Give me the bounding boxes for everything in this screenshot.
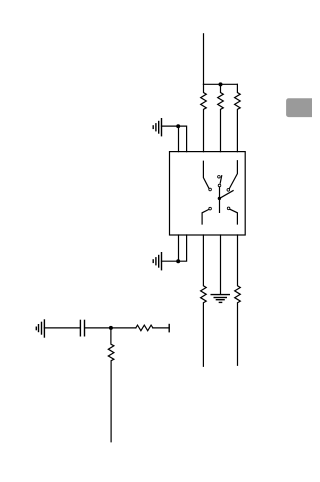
selection tab gray: [286, 98, 316, 117]
switch U1 body: [170, 152, 246, 235]
resistor R1: [201, 84, 207, 151]
terminal pin end: [168, 325, 170, 332]
wire R6 to terminal: [153, 327, 169, 329]
switch U1 bottom-right lead: [230, 209, 238, 224]
switch U1 pole line: [219, 187, 221, 213]
junction upper-left: [176, 124, 180, 128]
wire top horizontal bus: [204, 83, 238, 85]
switch U1 top lever (open): [220, 176, 222, 184]
capacitor C1: [80, 320, 84, 335]
wire pin stub upper-left: [178, 126, 180, 152]
switch U1 bottom-left lead: [202, 209, 209, 224]
switch U1 junction: [218, 197, 221, 200]
ground GND3 earth below box: [211, 295, 229, 303]
switch U1 top contact: [218, 176, 221, 179]
junction top bus: [219, 82, 223, 86]
resistor R4: [201, 235, 207, 366]
ground GND2 lower-left of box: [153, 253, 161, 270]
resistor R7 vertical: [108, 328, 114, 442]
switch U1 pole contact: [218, 184, 221, 187]
resistor R3: [235, 84, 241, 151]
resistor R5: [235, 235, 241, 365]
switch U1 left throw contact: [209, 188, 212, 191]
wire GND1 to pins: [162, 126, 187, 152]
wire GND4 to C1: [44, 327, 79, 329]
wire C1 to node: [85, 327, 136, 329]
switch U1 bottom-left contact: [209, 207, 212, 210]
wire pin stub lower-left: [178, 235, 180, 261]
ground GND4 far-left: [36, 320, 44, 337]
wire top vertical feed: [203, 34, 205, 85]
switch U1 left throw lead: [203, 161, 209, 188]
wire earth pin: [220, 235, 222, 294]
switch U1 right throw lead: [229, 161, 237, 189]
switch U1 right throw contact: [227, 189, 230, 192]
switch U1 main lever: [220, 191, 234, 199]
wire GND2 to pins: [162, 235, 187, 261]
resistor R2: [218, 84, 224, 151]
junction node bottom-left: [109, 326, 113, 330]
switch U1 bottom-right contact: [227, 207, 230, 210]
resistor R6 horizontal: [136, 325, 153, 331]
ground GND1 upper-left: [153, 119, 161, 136]
junction lower-left: [176, 259, 180, 263]
